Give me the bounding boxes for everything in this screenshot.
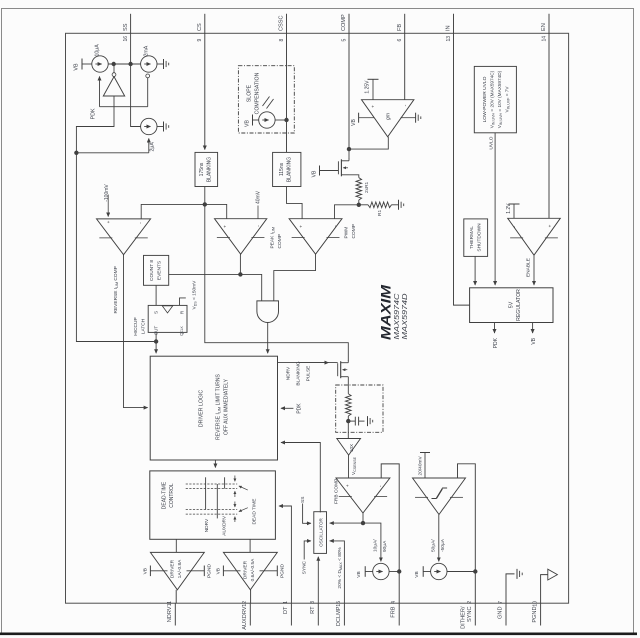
wire oscillator clock into driver logic bbox=[281, 443, 320, 513]
svg-text:REVERSE ILIM LIMIT TURNS: REVERSE ILIM LIMIT TURNS bbox=[216, 374, 222, 440]
resistor 2xR1 bbox=[356, 178, 362, 200]
svg-text:NDRV: NDRV bbox=[167, 606, 173, 622]
pin EN (14) stub bbox=[548, 14, 550, 34]
slope waveform glyph bbox=[263, 97, 270, 107]
latch clock triangle bbox=[162, 306, 172, 313]
driver NDRV 1A/-0.8A bbox=[150, 552, 204, 589]
svg-text:10μA: 10μA bbox=[95, 44, 101, 57]
svg-text:+: + bbox=[299, 225, 304, 228]
dead-time gap arrows bbox=[234, 476, 236, 482]
svg-text:R1: R1 bbox=[377, 210, 383, 216]
svg-text:+: + bbox=[106, 220, 111, 223]
VDS<150mV reset signal stub bbox=[180, 298, 186, 306]
wire IN pin down to 5V regulator bbox=[454, 33, 470, 305]
comparator EN bbox=[508, 218, 561, 255]
wire FRB source output to FRB pin line bbox=[389, 571, 399, 573]
svg-text:COMPENSATION: COMPENSATION bbox=[255, 72, 261, 114]
HICCUP LATCH box bbox=[148, 305, 187, 332]
waveform edges bbox=[205, 477, 207, 509]
svg-text:-: - bbox=[256, 225, 262, 227]
svg-text:VB: VB bbox=[74, 63, 80, 71]
comparator REVERSE ILIM COMP bbox=[97, 219, 151, 255]
svg-text:PGND: PGND bbox=[280, 564, 286, 578]
svg-text:10: 10 bbox=[532, 601, 538, 607]
svg-text:VB: VB bbox=[143, 568, 149, 574]
RT pin wire into oscillator bbox=[317, 557, 319, 603]
error amplifier gm bbox=[362, 100, 414, 137]
amplifier 10X bbox=[337, 439, 361, 456]
SLOPE COMPENSATION dashed box bbox=[238, 66, 294, 133]
svg-text:DT: DT bbox=[283, 606, 289, 614]
1.2V reference into EN comp - input bbox=[513, 204, 515, 218]
svg-text:VB: VB bbox=[351, 119, 357, 126]
wire dither comp output to current source bbox=[438, 515, 440, 554]
svg-text:COMP: COMP bbox=[351, 224, 357, 238]
pin DCLMP (15) stub bbox=[343, 603, 345, 625]
svg-text:QCLK: QCLK bbox=[179, 325, 184, 335]
svg-text:50μA/: 50μA/ bbox=[431, 539, 437, 552]
ENABLE wire to 5V regulator bbox=[533, 255, 535, 285]
FRB comp output junction bbox=[362, 513, 364, 523]
PGND pin wire and chassis triangle bbox=[541, 575, 548, 604]
svg-text:OSCILLATOR: OSCILLATOR bbox=[319, 517, 324, 546]
ground after R1 bbox=[392, 204, 399, 206]
pin IN (13) stub bbox=[453, 14, 455, 34]
dead-time pointer arrows bbox=[239, 486, 248, 490]
svg-text:COUNT 8: COUNT 8 bbox=[149, 260, 155, 281]
svg-text:FRB COMP: FRB COMP bbox=[333, 479, 339, 504]
svg-text:VB: VB bbox=[356, 571, 362, 577]
svg-text:2μA: 2μA bbox=[150, 142, 156, 152]
wire SS node down to 2uA source bbox=[131, 64, 141, 127]
COUNT 8 EVENTS box bbox=[144, 255, 169, 285]
svg-text:6: 6 bbox=[397, 39, 403, 42]
wire latch OUT down to node bbox=[155, 332, 157, 341]
svg-text:MAX5974D: MAX5974D bbox=[400, 293, 409, 340]
wire 115ns out to PWM comp + input bbox=[287, 187, 303, 219]
svg-text:1.2V: 1.2V bbox=[506, 203, 512, 214]
wire VCSENSE to FRB comp + input bbox=[348, 455, 350, 478]
svg-text:THERMAL: THERMAL bbox=[469, 226, 475, 249]
PDK output of 5V regulator bbox=[494, 323, 496, 334]
svg-text:S: S bbox=[154, 311, 159, 314]
svg-text:DCLMP: DCLMP bbox=[336, 606, 342, 626]
pin SS (16) stub bbox=[130, 14, 132, 34]
svg-text:VB: VB bbox=[414, 571, 420, 577]
wire PEAK comp output bbox=[239, 254, 241, 274]
pin DITHER/SYNC (2) stub bbox=[474, 603, 476, 625]
svg-text:SYNC: SYNC bbox=[302, 560, 308, 574]
junction PEAK output bbox=[238, 272, 242, 276]
svg-text:10μA/: 10μA/ bbox=[373, 539, 379, 552]
AND gate bbox=[257, 301, 279, 323]
transistor: COMP level-shift MOSFET bbox=[348, 149, 350, 159]
20/40mV reference into dither comp bbox=[424, 453, 426, 479]
svg-text:VB: VB bbox=[245, 120, 251, 127]
svg-text:PDK: PDK bbox=[297, 403, 303, 414]
pin RT (3) stub bbox=[317, 603, 319, 625]
wire AND output into driver logic bbox=[267, 323, 269, 354]
svg-text:OFF AUX IMMEDIATELY: OFF AUX IMMEDIATELY bbox=[224, 378, 230, 435]
svg-text:REVERSE ILIM COMP: REVERSE ILIM COMP bbox=[113, 266, 119, 313]
divider node junction bbox=[357, 203, 361, 207]
wire PEAK output to AND gate bbox=[240, 274, 261, 300]
wire dead-time to AUXDRV driver bbox=[249, 539, 251, 552]
OSCILLATOR box bbox=[314, 512, 327, 554]
wire PWM comp output to AND gate bbox=[274, 254, 316, 301]
wire CS node to REVERSE comp - input bbox=[141, 204, 205, 219]
COMP node junction bbox=[347, 147, 351, 151]
wire driver logic to dead-time control bbox=[214, 460, 216, 468]
IC outline box bbox=[66, 33, 569, 603]
arrow hiccup node into driver logic bbox=[155, 342, 157, 354]
svg-text:-: - bbox=[378, 485, 384, 487]
ground stub on error amp bbox=[401, 117, 416, 119]
svg-text:90μA: 90μA bbox=[382, 540, 388, 552]
wire COUNT8 to latch S input bbox=[155, 285, 157, 305]
svg-text:40mV: 40mV bbox=[256, 190, 262, 204]
GND pin wire and ground symbol bbox=[506, 574, 515, 603]
DEAD-TIME CONTROL box bbox=[150, 471, 276, 539]
control wire into 2uA source bbox=[76, 152, 148, 154]
svg-text:-: - bbox=[138, 222, 144, 224]
svg-text:AUXDRV: AUXDRV bbox=[242, 606, 248, 629]
svg-text:13: 13 bbox=[446, 36, 452, 42]
svg-text:UVLO: UVLO bbox=[489, 136, 495, 149]
driver AUXDRV 0.6A/-0.5A bbox=[223, 552, 277, 589]
wire slope source to CSSC line bbox=[275, 119, 286, 121]
current source 10uA/90uA bbox=[373, 563, 389, 579]
1.25V reference into + input bbox=[372, 79, 374, 99]
svg-text:BLANKING: BLANKING bbox=[296, 361, 302, 386]
wire NDRV driver output to pin bbox=[175, 590, 177, 603]
wire error amp output to COMP node bbox=[349, 137, 388, 149]
control arrow into 10uA source bbox=[99, 77, 101, 107]
wire 175ns out to CS node bbox=[204, 187, 206, 205]
pin GND (7) stub bbox=[505, 603, 507, 625]
wire CS pin into 175ns blanking (arrow) bbox=[204, 33, 206, 149]
svg-text:gm: gm bbox=[386, 113, 392, 120]
control bubble into 2mA source bbox=[147, 78, 149, 107]
pin CSSC (8) stub bbox=[286, 14, 288, 34]
current source 2uA bbox=[141, 118, 157, 134]
svg-text:CONTROL: CONTROL bbox=[169, 483, 175, 508]
PGND bar AUXDRV driver bbox=[260, 570, 278, 572]
wire CS node to PEAK comp + input bbox=[205, 204, 227, 218]
svg-text:SS: SS bbox=[123, 23, 129, 31]
pin NDRV (11) stub bbox=[174, 603, 176, 625]
svg-text:175ns: 175ns bbox=[199, 162, 205, 176]
junction on CSSC line bbox=[284, 118, 288, 122]
svg-text:IN: IN bbox=[446, 25, 452, 31]
comparator PEAK ILIM COMP bbox=[215, 219, 267, 255]
svg-text:PWM: PWM bbox=[344, 227, 350, 239]
svg-text:-100mV: -100mV bbox=[104, 184, 110, 202]
DT pin wire into dead-time control bbox=[279, 506, 291, 603]
current source 50uA/-50uA bbox=[431, 563, 447, 579]
svg-text:115ns: 115ns bbox=[279, 162, 285, 176]
comparator dither hysteresis bbox=[413, 478, 466, 515]
resistor R1 bbox=[359, 204, 368, 206]
wire MOSFET source to divider bbox=[349, 175, 359, 178]
svg-text:5: 5 bbox=[341, 39, 347, 42]
svg-text:PULSE: PULSE bbox=[306, 366, 312, 382]
wire dead-time to NDRV driver bbox=[175, 539, 177, 552]
svg-text:2mA: 2mA bbox=[143, 45, 149, 56]
svg-text:20/40mV: 20/40mV bbox=[417, 456, 423, 476]
5V REGULATOR box bbox=[470, 288, 553, 323]
svg-text:DITHER/: DITHER/ bbox=[460, 606, 466, 629]
svg-text:VB: VB bbox=[531, 337, 537, 344]
ground for 2mA source bbox=[157, 63, 164, 65]
comparator PWM COMP bbox=[289, 219, 342, 255]
svg-text:0.6A/-0.5A: 0.6A/-0.5A bbox=[250, 558, 256, 581]
node junction on SS line bbox=[128, 62, 132, 66]
svg-text:2: 2 bbox=[467, 601, 473, 604]
svg-text:+: + bbox=[371, 105, 376, 108]
svg-text:15: 15 bbox=[336, 601, 342, 607]
svg-text:LATCH: LATCH bbox=[141, 318, 147, 334]
svg-text:4: 4 bbox=[391, 601, 397, 604]
115ns BLANKING box bbox=[273, 152, 301, 186]
hysteresis glyph bbox=[432, 488, 448, 499]
svg-text:DEAD-TIME: DEAD-TIME bbox=[162, 481, 168, 509]
svg-text:-: - bbox=[512, 226, 518, 228]
svg-text:8: 8 bbox=[279, 39, 285, 42]
svg-text:CSSC: CSSC bbox=[279, 15, 285, 31]
wire divider node to PWM comp - input bbox=[335, 205, 359, 219]
svg-text:PGND: PGND bbox=[207, 564, 213, 578]
UVLO signal wire to 5V regulator bbox=[494, 133, 496, 285]
pin COMP (5) stub bbox=[348, 14, 350, 34]
pin FRB (4) stub bbox=[398, 603, 400, 625]
pin PGND (10) stub bbox=[540, 603, 542, 625]
svg-text:BLANKING: BLANKING bbox=[286, 157, 292, 182]
wire AUXDRV driver output to pin bbox=[250, 590, 252, 603]
wire PEAK output to COUNT8 box bbox=[169, 273, 241, 275]
svg-text:DRIVER: DRIVER bbox=[170, 559, 176, 578]
svg-text:DRIVER: DRIVER bbox=[243, 560, 249, 579]
svg-text:VB: VB bbox=[312, 170, 318, 177]
wire COMP pin down to node bbox=[348, 33, 350, 149]
175ns BLANKING box bbox=[195, 152, 218, 186]
wire DITHER/SYNC pin to comp input bbox=[458, 464, 476, 603]
svg-text:COMP: COMP bbox=[277, 234, 283, 248]
svg-text:10X: 10X bbox=[349, 444, 354, 452]
svg-text:-50μA: -50μA bbox=[440, 538, 446, 552]
CS node junction bbox=[203, 202, 207, 206]
svg-text:FRB: FRB bbox=[391, 606, 397, 617]
wire FB pin to - input bbox=[404, 33, 406, 99]
svg-text:COMP: COMP bbox=[341, 14, 347, 31]
svg-text:-: - bbox=[403, 104, 409, 106]
THERMAL SHUTDOWN box bbox=[464, 219, 488, 257]
svg-text:2xR1: 2xR1 bbox=[364, 181, 370, 193]
svg-text:+: + bbox=[223, 225, 228, 228]
wire RC node to 10X amp bbox=[347, 421, 349, 438]
DCLMP pin wire into oscillator bbox=[330, 541, 345, 603]
DRIVER LOGIC box bbox=[150, 356, 277, 460]
NDRV blanking pulse output wire bbox=[278, 362, 336, 364]
svg-text:LOW-POWER UVLO: LOW-POWER UVLO bbox=[482, 76, 488, 122]
RC capacitor bbox=[348, 420, 355, 422]
pin DT (1) stub bbox=[290, 603, 292, 625]
inverter buffer PDK (bubble output up) bbox=[113, 64, 115, 73]
wire EN pin to comparator + input bbox=[548, 33, 550, 218]
current source 10uA bbox=[92, 56, 108, 72]
PDK control rail for current sources bbox=[100, 106, 148, 108]
svg-text:EVENTS: EVENTS bbox=[157, 261, 163, 280]
svg-text:NDRV: NDRV bbox=[204, 518, 210, 532]
svg-text:SS: SS bbox=[300, 497, 306, 503]
svg-text:PDK: PDK bbox=[493, 337, 499, 348]
wire 10uA to SS node bbox=[108, 63, 140, 65]
svg-text:GND: GND bbox=[498, 607, 504, 619]
slope compensation current source bbox=[259, 112, 275, 128]
wire FRB comp output to hiccup current source bbox=[363, 523, 381, 553]
svg-text:1: 1 bbox=[283, 601, 289, 604]
node junction PDK chain bbox=[74, 151, 78, 155]
wire CSSC pin down to 115ns blanking bbox=[286, 33, 288, 152]
svg-text:DEAD TIME: DEAD TIME bbox=[252, 498, 258, 524]
wire SS pin down to node bbox=[130, 33, 132, 64]
svg-text:REGULATOR: REGULATOR bbox=[516, 289, 522, 321]
svg-text:9: 9 bbox=[197, 39, 203, 42]
current source 2mA bbox=[141, 56, 157, 72]
node junction at inverter output bbox=[112, 62, 116, 66]
svg-text:14: 14 bbox=[541, 36, 547, 42]
page bottom edge bar bbox=[0, 633, 637, 636]
hiccup node junction bbox=[154, 339, 158, 343]
svg-text:SHUTDOWN: SHUTDOWN bbox=[477, 223, 483, 252]
wire FRB comp output into oscillator bbox=[330, 522, 363, 524]
svg-text:7: 7 bbox=[498, 601, 504, 604]
svg-text:EN: EN bbox=[541, 23, 547, 31]
svg-text:DRIVER LOGIC: DRIVER LOGIC bbox=[199, 390, 205, 427]
VCSENSE RC dashed box bbox=[336, 385, 383, 432]
svg-text:11: 11 bbox=[167, 601, 173, 606]
comparator FRB COMP bbox=[336, 478, 390, 513]
wire thermal shutdown to 5V regulator bbox=[474, 256, 476, 285]
RC resistor bbox=[346, 394, 352, 416]
svg-text:RT: RT bbox=[310, 606, 316, 614]
wire CS node down to blanking switch bbox=[205, 204, 348, 360]
svg-text:-: - bbox=[333, 225, 339, 227]
svg-text:ENABLE: ENABLE bbox=[526, 258, 532, 277]
svg-text:1.25V: 1.25V bbox=[365, 80, 371, 94]
pin AUXDRV (12) stub bbox=[249, 603, 251, 625]
svg-text:AUXDRV: AUXDRV bbox=[222, 515, 228, 536]
svg-text:SLOPE: SLOPE bbox=[247, 84, 253, 102]
svg-text:BLANKING: BLANKING bbox=[207, 157, 213, 182]
svg-text:FB: FB bbox=[397, 24, 403, 31]
svg-text:5V: 5V bbox=[509, 301, 515, 308]
pin FB (6) stub bbox=[404, 14, 406, 34]
svg-text:+: + bbox=[548, 224, 553, 227]
svg-text:HICCUP: HICCUP bbox=[133, 317, 139, 335]
wire FRB pin up to comp - input bbox=[381, 464, 399, 603]
svg-text:PDK: PDK bbox=[91, 108, 97, 119]
VB output of 5V regulator bbox=[532, 323, 534, 334]
svg-text:1A/-0.8A: 1A/-0.8A bbox=[177, 559, 183, 578]
PGND bar NDRV driver bbox=[187, 570, 205, 572]
wire switch source into RC bbox=[347, 377, 349, 394]
svg-text:+: + bbox=[345, 484, 350, 487]
svg-text:PGND: PGND bbox=[532, 607, 538, 623]
svg-text:16: 16 bbox=[123, 36, 129, 42]
svg-text:3: 3 bbox=[310, 601, 316, 604]
PDK input stub into driver logic bbox=[281, 407, 293, 409]
svg-text:CS: CS bbox=[197, 23, 203, 31]
dead-time waveform dashed rails bbox=[186, 483, 238, 485]
wire dither source output to pin line bbox=[447, 571, 475, 573]
transistor: VCSENSE blanking switch bbox=[340, 361, 342, 378]
svg-text:NDRV: NDRV bbox=[286, 366, 292, 380]
ground for 2uA source bbox=[157, 126, 164, 128]
wire PDK chain down the left side bbox=[76, 153, 156, 342]
svg-text:SYNC: SYNC bbox=[467, 607, 473, 623]
wire REVERSE comp output down bbox=[124, 255, 148, 408]
svg-text:12: 12 bbox=[242, 601, 248, 607]
RC node junction bbox=[347, 416, 349, 421]
wire inverter input bbox=[76, 96, 114, 153]
pin CS (9) stub bbox=[204, 14, 206, 34]
LOW-POWER UVLO box bbox=[474, 66, 516, 132]
svg-text:VB: VB bbox=[216, 568, 222, 574]
